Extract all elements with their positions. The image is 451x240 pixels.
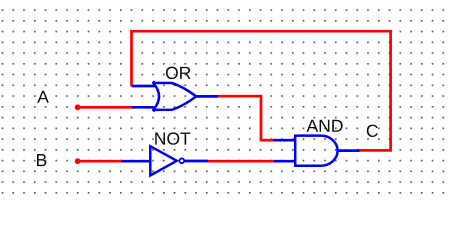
wire B to NOT input bbox=[78, 160, 122, 163]
wire A to OR input bbox=[78, 106, 133, 109]
terminal B pin dot bbox=[75, 158, 81, 164]
OR gate U1 pin stubs bbox=[132, 86, 218, 107]
OR gate U1 body bbox=[153, 81, 197, 111]
NOT label bbox=[155, 132, 190, 144]
wire NOT output to AND input bbox=[208, 160, 276, 163]
terminal A pin dot bbox=[75, 104, 81, 110]
node label B bbox=[37, 154, 46, 166]
NOT gate U2 pin stubs bbox=[121, 160, 208, 163]
node label A bbox=[37, 91, 49, 103]
AND label bbox=[307, 120, 343, 132]
NOT gate U2 bubble bbox=[179, 158, 184, 163]
AND gate U3 pin stubs bbox=[273, 140, 360, 161]
node label C bbox=[367, 125, 378, 137]
wire OR output to AND input bbox=[218, 96, 275, 140]
OR label bbox=[166, 67, 191, 79]
wire feedback loop from AND output to OR top input bbox=[132, 31, 391, 150]
AND gate U3 body bbox=[295, 136, 337, 166]
NOT gate U2 body (triangle) bbox=[150, 146, 177, 175]
